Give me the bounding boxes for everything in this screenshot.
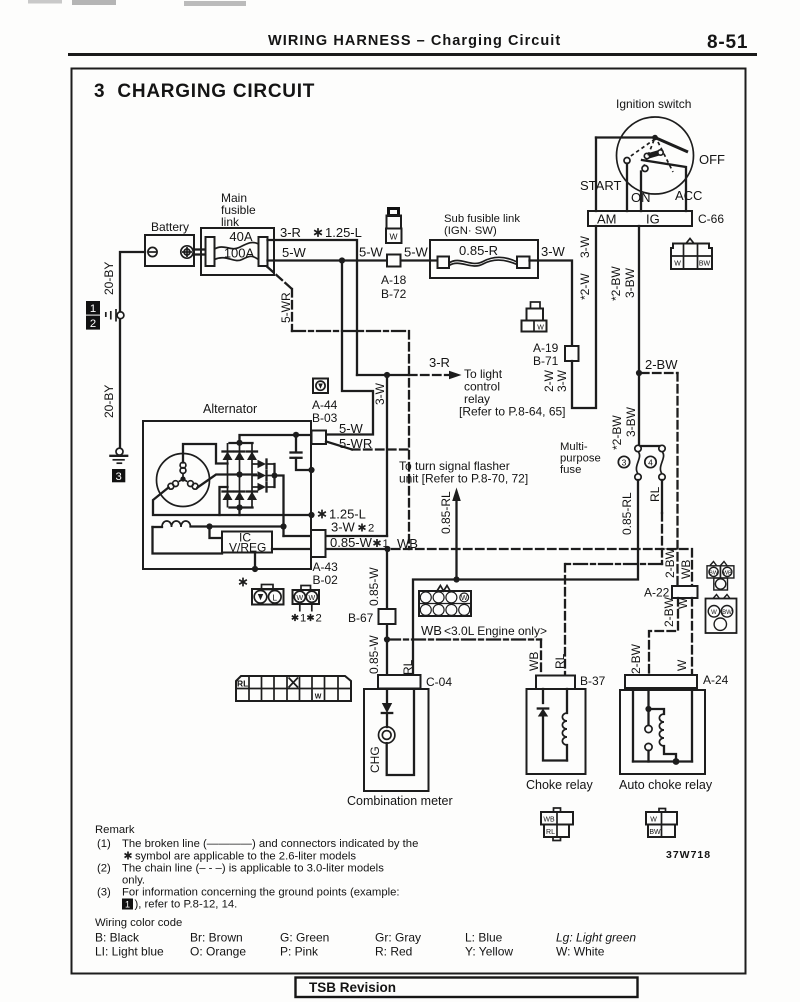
svg-text:W: W [308,595,315,602]
svg-text:3-W: 3-W [541,244,566,259]
connector C-04 [378,675,421,689]
connector icon W/BW top right [671,239,712,270]
svg-text:O: Orange: O: Orange [190,945,246,959]
fusible link 100A wavy wire [215,256,259,260]
stator circle [157,454,210,507]
svg-text:W: W [296,595,303,602]
svg-text:Multi-: Multi- [560,441,588,453]
asterisk 1.25-L with label [318,510,326,519]
auto choke inner frame right [691,690,693,762]
svg-text:2-W: 2-W [542,369,556,392]
svg-text:(IGN· SW): (IGN· SW) [444,225,497,237]
stator coil top [182,474,184,479]
connector A-18/B-72 [387,255,401,267]
junction node 0.85-RL [453,576,459,582]
ground point marker 3 [112,469,125,482]
svg-text:RL: RL [648,486,662,502]
svg-text:WB: WB [527,652,541,671]
field coil return leg [153,527,223,554]
svg-text:W: W [537,325,544,332]
svg-text:The chain line (– - –) is appl: The chain line (– - –) is applicable to … [122,863,384,875]
svg-text:AM: AM [597,212,617,227]
wire RL from fuse 4 to chain [661,480,663,513]
dashed W below A-22 [691,598,693,675]
svg-text:Auto choke relay: Auto choke relay [619,778,713,792]
chain WB to choke relay [387,638,541,640]
svg-text:WB: WB [543,817,555,824]
diode in meter [382,703,392,713]
page header rule [28,0,757,56]
trio diode row 1 [252,463,258,465]
svg-text:3 CHARGING CIRCUIT: 3 CHARGING CIRCUIT [94,81,315,102]
rectifier column 3 [251,443,253,508]
ignition switch pivot [652,135,658,141]
junction node 0.85-W / WB [384,546,390,552]
svg-text:B: Black: B: Black [95,931,140,945]
svg-text:symbol are applicable to the 2: symbol are applicable to the 2.6-liter m… [135,851,356,863]
svg-text:RL: RL [546,829,555,836]
connector icon W/BW 2pin right lower [706,595,737,634]
svg-text:WIRING HARNESS – Charging Circ: WIRING HARNESS – Charging Circuit [268,33,561,49]
trio diode bus [273,464,275,487]
svg-text:W: W [461,595,468,602]
auto choke relay box [620,690,705,774]
svg-text:1.25-L: 1.25-L [325,225,362,240]
fuse 3 number [618,456,629,467]
fuse 4 number [645,456,656,467]
svg-text:Ignition switch: Ignition switch [616,97,691,111]
svg-text:W: W [675,659,689,671]
svg-text:1: 1 [300,613,306,625]
junction node rectifier mid [236,471,242,477]
svg-text:BW: BW [699,261,711,268]
wire 3-R from fusible link [268,240,358,375]
ignition switch START contact [624,158,630,164]
trio diode row 2 [252,475,258,477]
ignition switch moving contact [648,153,660,157]
svg-text:A-19: A-19 [533,341,559,355]
svg-text:The broken line (————) and con: The broken line (————) and connectors in… [122,838,418,850]
connector A-43/B-02 on alternator [311,530,326,557]
wire field to V/REG [210,527,223,539]
rectifier B+ line [240,435,327,443]
svg-text:C-04: C-04 [426,675,452,689]
wire 5-W down to alternator A-44 [326,261,373,435]
svg-text:2: 2 [316,613,322,625]
label *1 [292,614,298,621]
svg-text:0.85-RL: 0.85-RL [620,492,634,535]
junction node B+ [293,432,299,438]
svg-text:3-R: 3-R [429,355,450,370]
connector icon A-19 [522,302,547,332]
svg-text:5-W: 5-W [404,245,429,260]
rectifier column 2 [239,443,241,508]
svg-text:A-43: A-43 [313,560,339,574]
svg-text:OFF: OFF [699,152,725,167]
ground point marker 2 [86,316,100,330]
ground point marker 1 [86,301,100,315]
svg-text:1: 1 [90,303,96,315]
dashed 2-BW below A-22 [649,598,678,675]
fusible link element right [259,237,268,266]
svg-text:fuse: fuse [560,464,581,476]
svg-text:RL: RL [237,679,248,689]
svg-text:37W718: 37W718 [666,849,711,861]
connector icon W/BW below auto choke relay [646,809,677,838]
svg-text:0.85-W: 0.85-W [367,635,381,674]
svg-text:RL: RL [553,653,567,669]
V/REG ground to case [254,553,256,570]
svg-text:G: Green: G: Green [280,931,329,945]
svg-text:ACC: ACC [675,188,702,203]
rectifier top bus [230,442,253,444]
svg-text:RL: RL [401,659,415,675]
chain line to 5-WR net [292,330,409,332]
svg-text:3-R: 3-R [280,225,301,240]
svg-text:0.85-RL: 0.85-RL [439,491,453,534]
combination meter box [364,689,429,791]
wire 0.85-W down through B-67 to C-04 [386,549,388,675]
phase 2 wire / mid bus [198,475,257,488]
svg-text:W: W [650,817,657,824]
svg-text:unit [Refer to P.8-70, 72]: unit [Refer to P.8-70, 72] [399,472,528,486]
rectifier column 1 [227,443,229,508]
connector icon W above A-18 [386,209,402,244]
svg-text:100A: 100A [224,246,255,261]
svg-text:(3): (3) [97,887,111,899]
svg-text:3-BW: 3-BW [624,406,638,437]
battery [145,235,194,266]
choke relay diode wire [542,689,544,703]
svg-text:5-W: 5-W [359,245,384,260]
sub link element right [517,257,530,269]
junction node 2-BW [636,370,642,376]
diagram frame [72,69,746,974]
svg-text:2-BW: 2-BW [629,643,643,674]
stator star point [180,476,185,481]
battery positive terminal [181,246,193,258]
junction node field/VREG [206,523,212,529]
capacitor [295,435,297,452]
svg-text:W: W [711,610,717,616]
rotor field coil [153,526,163,528]
auto choke 2-BW pin and switch [647,690,649,726]
svg-text:IG: IG [646,212,660,227]
svg-text:V/REG: V/REG [229,541,266,555]
junction node 3-W / 3-R [384,372,390,378]
svg-text:Sub fusible link: Sub fusible link [444,213,520,225]
battery negative terminal [148,247,157,256]
ignition switch feed wire to pivot [596,136,655,138]
wire trio output to 3-W [275,476,284,537]
svg-text:2: 2 [368,523,374,535]
svg-text:4: 4 [648,457,653,467]
svg-text:2-BW: 2-BW [645,357,678,372]
svg-text:2: 2 [90,318,96,330]
svg-text:BW: BW [722,610,732,616]
ground point 1/2 (circle on wire with chassis bars) [117,312,124,319]
wire 2-W/3-W below B-71 and U-turn up to C-66 AM [572,226,596,408]
connector A-44/B-03 on alternator [312,431,327,445]
svg-text:0.85-W: 0.85-W [367,567,381,606]
svg-text:2-BW: 2-BW [662,596,676,627]
svg-text:*2-BW: *2-BW [609,266,623,301]
wire 5-WR dashed from fusible link corner [268,267,293,289]
svg-text:1: 1 [125,900,130,910]
connector icon W/W 2pin [293,586,320,612]
svg-text:A-24: A-24 [703,673,729,687]
wire 3-R to light control relay [357,374,409,376]
junction node on case [308,467,314,473]
wire battery to fusible link (double) [193,248,206,250]
fuse 3 element [635,445,641,451]
svg-text:(2): (2) [97,863,111,875]
wire 3-W vertical to A-43 [386,375,388,536]
svg-text:40A: 40A [229,229,252,244]
svg-text:(1): (1) [97,838,111,850]
auto choke coil [649,709,665,714]
svg-text:3: 3 [622,457,627,467]
svg-text:BW: BW [709,570,719,576]
connector C-66 [588,211,692,226]
svg-text:[Refer to P.8-64, 65]: [Refer to P.8-64, 65] [459,405,566,419]
svg-text:3-W: 3-W [555,369,569,392]
svg-text:5-W: 5-W [282,245,307,260]
svg-text:purpose: purpose [560,453,601,465]
svg-text:0.85-R: 0.85-R [459,243,498,258]
connector A-22 [672,586,698,598]
svg-text:3: 3 [115,471,121,483]
sub link wavy wire [449,257,517,263]
sub link element left [438,257,450,269]
svg-text:CHG: CHG [368,746,382,773]
svg-text:C-66: C-66 [698,212,724,226]
ground symbol bottom of 20-BY [116,448,123,455]
svg-text:W: White: W: White [556,945,605,959]
junction node N terminal [308,512,314,518]
fuse top link [638,445,662,447]
ignition switch ON contact [642,166,648,172]
svg-text:Combination meter: Combination meter [347,794,453,808]
wire 0.85-RL up to turn signal flasher arrow [455,500,457,580]
diode D1 [223,450,233,452]
svg-text:2-BW: 2-BW [663,547,677,578]
svg-text:8-51: 8-51 [707,32,748,53]
V/REG output 0.85-W [272,548,387,550]
svg-text:W: W [674,261,681,268]
svg-text:ON: ON [631,190,651,205]
svg-text:20-BY: 20-BY [102,262,116,295]
svg-text:TSB Revision: TSB Revision [309,980,396,995]
connector icon BW/WB 2pin right [707,562,734,591]
svg-text:*2-W: *2-W [578,273,592,300]
diode D6 [247,490,257,492]
diode D2 [235,450,245,452]
svg-text:0.85-W: 0.85-W [330,535,373,550]
svg-text:WB: WB [679,560,693,579]
svg-text:3-W: 3-W [578,235,592,258]
svg-text:LI: Light blue: LI: Light blue [95,945,164,959]
connector icon WB/RL below choke relay [541,808,573,841]
svg-text:link: link [221,215,240,229]
svg-text:Lg: Light green: Lg: Light green [556,931,636,945]
main fusible link box [201,228,274,275]
svg-text:W: W [389,232,397,242]
svg-text:B-37: B-37 [580,674,606,688]
svg-text:Remark: Remark [95,824,135,836]
svg-text:START: START [580,178,621,193]
svg-text:Y: Yellow: Y: Yellow [465,945,513,959]
svg-text:L: Blue: L: Blue [465,931,503,945]
svg-text:Wiring color code: Wiring color code [95,917,182,929]
wire 3-W from sub link to B-71 [530,261,573,347]
svg-text:B-67: B-67 [348,611,374,625]
stator coil right [183,479,187,482]
svg-text:R: Red: R: Red [375,945,412,959]
junction node 5-W [339,257,345,263]
junction node rectifier top [236,440,242,446]
charge lamp circuit wire [386,689,388,703]
rectifier bottom bus [230,506,253,508]
asterisk below alternator [239,578,247,587]
svg-text:5-WR: 5-WR [339,436,372,451]
dashed WB line to A-22 [392,548,692,550]
svg-text:3-W: 3-W [331,520,356,535]
fusible link element left [206,237,215,266]
connector B-37 [536,676,575,690]
svg-text:<3.0L Engine only>: <3.0L Engine only> [444,624,547,638]
svg-text:B-72: B-72 [381,287,407,301]
diode D5 [235,490,245,492]
svg-text:A-18: A-18 [381,273,407,287]
wire 20-BY battery negative down [120,252,145,448]
connector icon A-44 small [313,379,328,394]
svg-text:WB: WB [723,570,732,576]
svg-text:P: Pink: P: Pink [280,945,319,959]
connector B-67 [379,609,396,624]
junction node WB [384,636,390,642]
phase 3 wire [153,488,312,516]
choke relay coil [566,689,568,713]
phase 1 wire [183,444,228,464]
ignition switch arm to OFF [655,138,688,153]
svg-text:B-02: B-02 [313,573,339,587]
dashed 2-BW branch to A-22 [641,372,678,374]
svg-text:W: W [315,694,322,701]
label *2 [307,614,313,621]
svg-text:BW: BW [649,829,661,836]
wire 0.85-RL from fuse 3 [413,480,638,675]
dashed vertical x409 down to WB line [408,331,410,549]
junction node rectifier bottom [236,504,242,510]
svg-text:), refer to P.8-12, 14.: ), refer to P.8-12, 14. [135,899,238,911]
svg-text:20-BY: 20-BY [102,385,116,418]
wire IG 2-BW/3-BW down from C-66 [638,226,640,448]
svg-text:Gr: Gray: Gr: Gray [375,931,421,945]
chain RL to choke relay [565,563,662,565]
auto choke bottom bar [633,760,692,762]
svg-text:Br: Brown: Br: Brown [190,931,243,945]
charge lamp CHG [379,727,395,743]
wire 5-W main horizontal [268,259,438,261]
svg-text:only.: only. [122,875,145,887]
TSB revision box [296,978,638,998]
IC V/REG box [222,532,272,553]
fusible link 40A wavy wire [215,242,259,249]
ignition switch ACC track [642,160,686,211]
wire 5-WR diag from A-44 [326,442,352,450]
ignition switch circle [617,117,694,194]
svg-text:For information concerning the: For information concerning the ground po… [122,887,400,899]
sub fusible link box [430,240,538,278]
svg-text:B-03: B-03 [312,411,338,425]
connector A-24 [625,675,697,688]
svg-text:5-WR: 5-WR [279,292,293,323]
svg-text:5-W: 5-W [339,421,364,436]
fuse 4 element [659,445,665,451]
svg-text:WB: WB [421,623,442,638]
svg-text:L: L [272,593,277,603]
svg-text:W: W [676,597,690,609]
connector icon W/L 2pin [252,585,284,605]
diode D4 [223,490,233,492]
connector icon 8pin [419,586,471,617]
choke relay box [527,689,586,774]
ignition switch dashed positions [628,139,655,158]
connector icon grid strip [236,676,351,701]
svg-text:Battery: Battery [151,220,189,234]
junction node field/3-W [280,523,286,529]
svg-text:3-BW: 3-BW [623,267,637,298]
svg-text:*2-BW: *2-BW [610,415,624,450]
auto choke inner frame left [632,690,634,762]
stator coil left [179,479,183,482]
svg-text:3-W: 3-W [373,382,387,405]
svg-text:B-71: B-71 [533,354,559,368]
trio diode row 3 [252,486,258,488]
svg-text:A-44: A-44 [312,398,338,412]
diode D3 [247,450,257,452]
svg-text:Alternator: Alternator [203,402,257,416]
asterisk for 1.25-L [314,228,322,237]
connector B-71 square on wire [565,346,579,361]
alternator box [143,421,311,569]
svg-text:Choke relay: Choke relay [526,778,593,792]
wire 3-W out of A-43 [284,535,388,537]
